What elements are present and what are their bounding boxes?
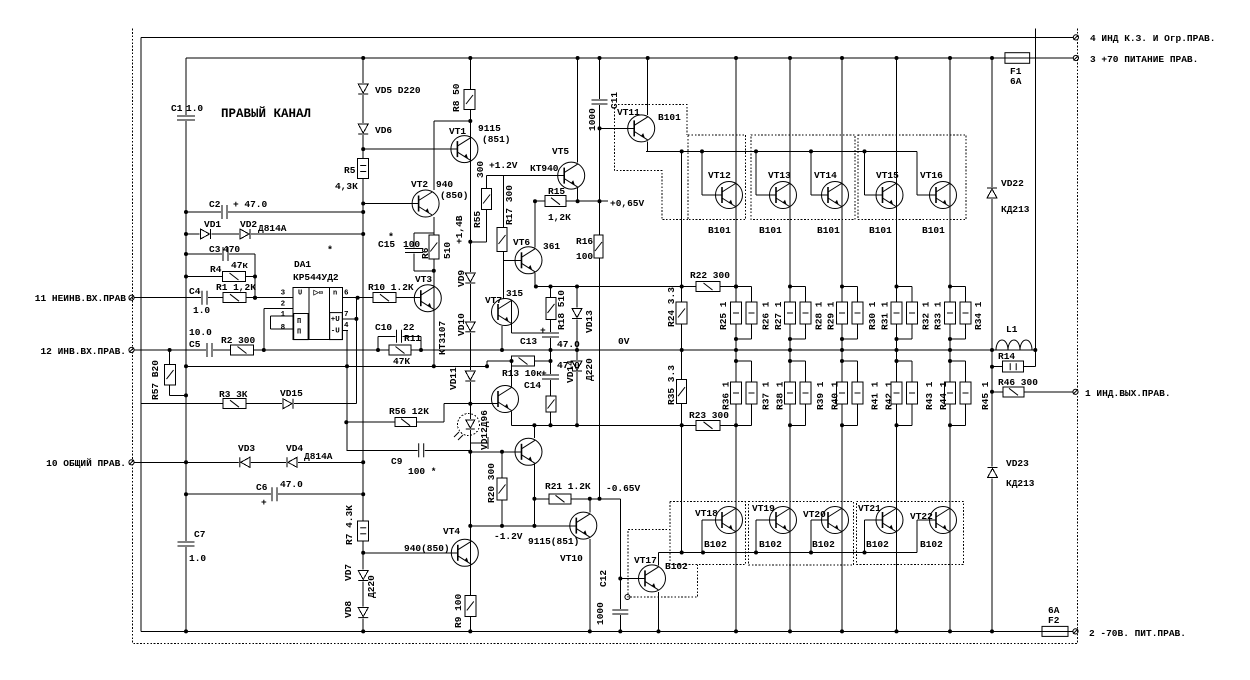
svg-text:-1.2V: -1.2V (494, 531, 523, 542)
svg-text:100: 100 (576, 251, 593, 262)
svg-text:-U: -U (331, 328, 341, 336)
svg-text:DA1: DA1 (294, 259, 311, 270)
svg-text:9115: 9115 (478, 123, 501, 134)
svg-text:3 +70 ПИТАНИЕ ПРАВ.: 3 +70 ПИТАНИЕ ПРАВ. (1090, 54, 1198, 65)
svg-text:U: U (298, 290, 302, 298)
svg-text:R3 3К: R3 3К (219, 389, 248, 400)
svg-text:1: 1 (281, 311, 286, 319)
svg-text:VT14: VT14 (814, 170, 837, 181)
svg-text:6А: 6А (1010, 76, 1022, 87)
svg-text:940(850): 940(850) (404, 543, 450, 554)
svg-text:КТ3107: КТ3107 (437, 320, 448, 355)
svg-text:VD11: VD11 (448, 367, 459, 390)
svg-text:(851): (851) (482, 134, 511, 145)
svg-text:VD13: VD13 (584, 310, 595, 333)
svg-text:R11: R11 (404, 333, 421, 344)
svg-text:В101: В101 (658, 112, 681, 123)
svg-text:R33 1: R33 1 (932, 301, 943, 330)
svg-text:VT20: VT20 (803, 509, 826, 520)
svg-text:VD5 D220: VD5 D220 (375, 85, 421, 96)
svg-text:Д220: Д220 (584, 358, 595, 381)
svg-text:R46 300: R46 300 (998, 377, 1038, 388)
svg-text:VT12: VT12 (708, 170, 731, 181)
svg-text:R40 1: R40 1 (829, 381, 840, 410)
svg-text:КД213: КД213 (1006, 478, 1035, 489)
svg-text:C12: C12 (598, 570, 609, 587)
svg-text:R41 1: R41 1 (870, 381, 881, 410)
svg-text:4 ИНД К.З. И Огр.ПРАВ.: 4 ИНД К.З. И Огр.ПРАВ. (1090, 33, 1215, 44)
svg-text:R35 3.3: R35 3.3 (666, 365, 677, 405)
svg-text:R31 1: R31 1 (879, 301, 890, 330)
svg-text:R38 1: R38 1 (775, 381, 786, 410)
svg-text:R7 4.3К: R7 4.3К (344, 505, 355, 545)
svg-text:VD22: VD22 (1001, 178, 1024, 189)
svg-text:П: П (297, 318, 301, 326)
svg-text:R56 12К: R56 12К (389, 406, 429, 417)
svg-text:470: 470 (223, 244, 240, 255)
svg-text:R42 1: R42 1 (883, 381, 894, 410)
svg-text:VD1: VD1 (204, 219, 221, 230)
svg-text:C7: C7 (194, 529, 206, 540)
svg-text:VT5: VT5 (552, 146, 569, 157)
svg-text:4: 4 (344, 322, 349, 330)
svg-text:C2: C2 (209, 199, 221, 210)
svg-text:9115(851): 9115(851) (528, 536, 579, 547)
svg-text:R2 300: R2 300 (221, 335, 256, 346)
svg-text:*: * (327, 245, 333, 257)
svg-text:R16: R16 (576, 236, 593, 247)
svg-text:П: П (297, 329, 301, 337)
svg-text:6: 6 (344, 290, 349, 298)
svg-text:VT17: VT17 (634, 555, 657, 566)
svg-text:361: 361 (543, 241, 560, 252)
svg-text:47к: 47к (231, 260, 248, 271)
svg-text:R36 1: R36 1 (720, 381, 731, 410)
svg-text:R30 1: R30 1 (867, 301, 878, 330)
svg-text:В102: В102 (866, 539, 889, 550)
svg-text:R34 1: R34 1 (973, 301, 984, 330)
svg-text:940: 940 (436, 179, 453, 190)
svg-text:2 -70В. ПИТ.ПРАВ.: 2 -70В. ПИТ.ПРАВ. (1089, 628, 1186, 639)
svg-text:11 НЕИНВ.ВХ.ПРАВ: 11 НЕИНВ.ВХ.ПРАВ (35, 293, 127, 304)
svg-text:В102: В102 (759, 539, 782, 550)
svg-text:VD4: VD4 (286, 443, 303, 454)
svg-text:VD6: VD6 (375, 125, 392, 136)
svg-text:VT19: VT19 (752, 503, 775, 514)
svg-text:47К: 47К (393, 356, 410, 367)
svg-text:R24 3.3: R24 3.3 (666, 287, 677, 327)
svg-text:R18 510: R18 510 (556, 290, 567, 330)
svg-text:1,2К: 1,2К (548, 212, 571, 223)
svg-text:R39 1: R39 1 (815, 381, 826, 410)
svg-text:VT3: VT3 (415, 274, 432, 285)
svg-text:C10: C10 (375, 322, 392, 333)
svg-text:+: + (540, 325, 546, 336)
svg-text:R22 300: R22 300 (690, 270, 730, 281)
svg-text:2: 2 (281, 300, 286, 308)
svg-text:▷∞: ▷∞ (313, 290, 324, 298)
svg-text:R28 1: R28 1 (813, 301, 824, 330)
svg-text:VT10: VT10 (560, 553, 583, 564)
svg-text:10.0: 10.0 (189, 327, 212, 338)
svg-text:+0,65V: +0,65V (610, 198, 645, 209)
svg-text:R45 1: R45 1 (980, 381, 991, 410)
svg-text:1000: 1000 (595, 602, 606, 625)
svg-text:47.0: 47.0 (280, 479, 303, 490)
svg-text:C13: C13 (520, 336, 537, 347)
svg-text:+ 47.0: + 47.0 (233, 199, 268, 210)
svg-text:В101: В101 (869, 225, 892, 236)
svg-text:R5: R5 (344, 165, 356, 176)
svg-text:R57 В20: R57 В20 (150, 360, 161, 400)
svg-text:VD3: VD3 (238, 443, 255, 454)
svg-text:В101: В101 (759, 225, 782, 236)
svg-text:22: 22 (403, 322, 415, 333)
svg-text:C9: C9 (391, 456, 403, 467)
svg-text:VD8: VD8 (343, 601, 354, 618)
svg-text:L1: L1 (1006, 324, 1018, 335)
svg-text:C14: C14 (524, 380, 541, 391)
svg-text:VD9: VD9 (456, 270, 467, 287)
svg-text:VT16: VT16 (920, 170, 943, 181)
svg-text:3: 3 (281, 290, 286, 298)
svg-text:R13 10к: R13 10к (502, 368, 542, 379)
svg-text:C4: C4 (189, 286, 201, 297)
svg-text:В102: В102 (665, 561, 688, 572)
svg-text:R32 1: R32 1 (920, 301, 931, 330)
svg-text:100: 100 (403, 239, 420, 250)
svg-text:+: + (261, 497, 267, 508)
svg-text:VT11: VT11 (617, 107, 640, 118)
svg-text:R6: R6 (420, 247, 431, 259)
svg-text:10 ОБЩИЙ ПРАВ.: 10 ОБЩИЙ ПРАВ. (46, 458, 126, 469)
svg-text:47.0: 47.0 (557, 339, 580, 350)
svg-text:КР544УД2: КР544УД2 (293, 272, 339, 283)
svg-text:C5: C5 (189, 339, 201, 350)
svg-text:В102: В102 (812, 539, 835, 550)
svg-text:C6: C6 (256, 482, 268, 493)
svg-text:0V: 0V (618, 336, 630, 347)
svg-text:В102: В102 (920, 539, 943, 550)
svg-text:VT13: VT13 (768, 170, 791, 181)
svg-text:В101: В101 (817, 225, 840, 236)
svg-text:510: 510 (442, 242, 453, 259)
svg-text:ПРАВЫЙ КАНАЛ: ПРАВЫЙ КАНАЛ (221, 106, 311, 121)
svg-text:(850): (850) (440, 190, 469, 201)
svg-text:R17 300: R17 300 (504, 185, 515, 225)
svg-text:VD12Д96: VD12Д96 (479, 410, 490, 450)
svg-text:C3: C3 (209, 244, 221, 255)
svg-text:VD14: VD14 (565, 360, 576, 383)
svg-text:4,3К: 4,3К (335, 181, 358, 192)
svg-text:1.0: 1.0 (189, 553, 206, 564)
svg-text:КД213: КД213 (1001, 204, 1030, 215)
svg-text:+1.2V: +1.2V (489, 160, 518, 171)
svg-text:7: 7 (344, 311, 349, 319)
svg-text:Д814А: Д814А (304, 451, 333, 462)
svg-text:315: 315 (506, 288, 523, 299)
svg-text:R26 1: R26 1 (760, 301, 771, 330)
svg-text:R15: R15 (548, 186, 565, 197)
svg-text:VT7: VT7 (485, 295, 502, 306)
svg-text:R4: R4 (210, 264, 222, 275)
svg-text:R29 1: R29 1 (826, 301, 837, 330)
svg-text:1.0: 1.0 (186, 103, 203, 114)
svg-text:VT2: VT2 (411, 179, 428, 190)
svg-text:R43 1: R43 1 (924, 381, 935, 410)
svg-text:VT1: VT1 (449, 126, 466, 137)
svg-text:R14: R14 (998, 351, 1015, 362)
svg-text:R27 1: R27 1 (773, 301, 784, 330)
svg-text:F2: F2 (1048, 615, 1060, 626)
svg-text:R55: R55 (472, 211, 483, 228)
svg-text:VT6: VT6 (513, 237, 530, 248)
svg-text:C1: C1 (171, 103, 183, 114)
svg-text:1 ИНД.ВЫХ.ПРАВ.: 1 ИНД.ВЫХ.ПРАВ. (1085, 388, 1171, 399)
svg-text:VD23: VD23 (1006, 458, 1029, 469)
svg-text:Д220: Д220 (366, 575, 377, 598)
svg-text:n: n (333, 290, 337, 298)
svg-text:R25 1: R25 1 (718, 301, 729, 330)
svg-text:В102: В102 (704, 539, 727, 550)
svg-text:8: 8 (281, 324, 286, 332)
svg-text:VD10: VD10 (456, 313, 467, 336)
svg-text:VD2: VD2 (240, 219, 257, 230)
svg-text:12 ИНВ.ВХ.ПРАВ.: 12 ИНВ.ВХ.ПРАВ. (40, 346, 126, 357)
svg-text:R1 1,2К: R1 1,2К (216, 282, 256, 293)
svg-text:В101: В101 (708, 225, 731, 236)
svg-text:R10 1.2К: R10 1.2К (368, 282, 414, 293)
svg-text:VD15: VD15 (280, 388, 303, 399)
svg-text:R21 1.2К: R21 1.2К (545, 481, 591, 492)
svg-text:+1,4В: +1,4В (454, 215, 465, 244)
svg-text:1000: 1000 (587, 108, 598, 131)
svg-text:R8 50: R8 50 (451, 83, 462, 112)
svg-text:R9 100: R9 100 (453, 593, 464, 628)
svg-text:R23 300: R23 300 (689, 410, 729, 421)
svg-text:*: * (388, 232, 394, 244)
svg-text:1.0: 1.0 (193, 305, 210, 316)
svg-text:В101: В101 (922, 225, 945, 236)
svg-text:100 *: 100 * (408, 466, 437, 477)
svg-text:-0.65V: -0.65V (606, 483, 641, 494)
svg-text:VT15: VT15 (876, 170, 899, 181)
svg-text:300: 300 (475, 161, 486, 178)
svg-text:КТ940: КТ940 (530, 163, 559, 174)
svg-text:VD7: VD7 (343, 564, 354, 581)
svg-text:VT22: VT22 (910, 511, 933, 522)
svg-text:+U: +U (331, 316, 341, 324)
svg-text:VT21: VT21 (858, 503, 881, 514)
svg-text:R20 300: R20 300 (486, 463, 497, 503)
svg-text:VT4: VT4 (443, 526, 460, 537)
svg-text:Д814А: Д814А (258, 223, 287, 234)
svg-text:R44 1: R44 1 (938, 381, 949, 410)
svg-text:VT18: VT18 (695, 508, 718, 519)
svg-text:R37 1: R37 1 (761, 381, 772, 410)
